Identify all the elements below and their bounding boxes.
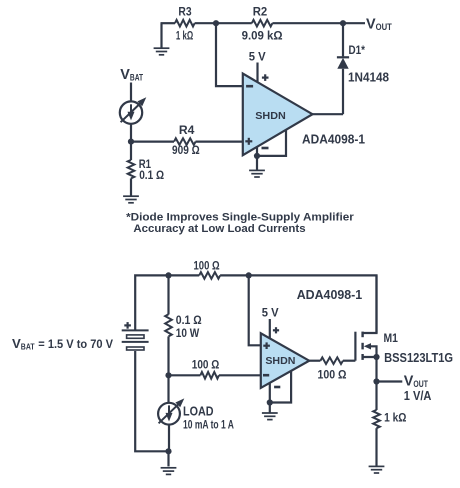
- resistor R5 100 ohm (top): [194, 258, 221, 278]
- svg-text:1 V/A: 1 V/A: [404, 389, 432, 403]
- note line 2: [133, 223, 305, 235]
- node H (U2 ground node): [267, 399, 273, 405]
- supply 5V (U2): [262, 305, 279, 338]
- node D (0.1 ohm top): [165, 272, 171, 278]
- svg-text:VOUT: VOUT: [404, 374, 428, 390]
- svg-text:1 kΩ: 1 kΩ: [384, 411, 406, 425]
- ground G2 (below R1): [123, 196, 139, 203]
- label VBAT (top): [120, 67, 143, 83]
- diode D1: [337, 43, 389, 85]
- op-amp U2 ADA4098-1: [261, 333, 309, 388]
- pin - (inverting input U1): [246, 85, 253, 88]
- resistor R9 1 kohm: [373, 410, 406, 428]
- ground G4 (load): [161, 468, 177, 475]
- wire: [269, 403, 271, 413]
- wire (SHDN tie to ground U2): [270, 371, 291, 403]
- resistor R6 0.1 ohm 10 W: [165, 313, 202, 340]
- wire: [167, 336, 169, 375]
- label VBAT = 1.5 V to 70 V: [12, 336, 114, 352]
- pin - (negative supply U2): [270, 383, 281, 403]
- wire (+input from node E): [249, 275, 261, 345]
- node VOUT (top): [340, 20, 346, 26]
- svg-text:VBAT: VBAT: [12, 336, 35, 352]
- node E (+input branch): [246, 272, 252, 278]
- battery VBAT: [122, 322, 149, 350]
- label VOUT (top): [366, 17, 392, 33]
- svg-text:M1: M1: [384, 331, 399, 345]
- ground G3 (U1): [249, 170, 265, 177]
- svg-text:SHDN: SHDN: [255, 111, 286, 122]
- transistor M1 BSS123LT1G: [355, 275, 453, 381]
- wire: [272, 22, 365, 24]
- op-amp U1 ADA4098-1: [243, 74, 313, 156]
- svg-text:100 Ω: 100 Ω: [318, 368, 347, 382]
- node A (R3/R2 junction): [213, 20, 219, 26]
- node B (R4/R1 junction): [128, 139, 134, 145]
- svg-text:R3: R3: [178, 5, 192, 19]
- svg-text:SHDN: SHDN: [265, 356, 295, 367]
- svg-text:5 V: 5 V: [249, 49, 267, 63]
- wire: [377, 380, 403, 382]
- supply 5V (U1): [249, 49, 269, 82]
- wire (battery negative rail): [135, 351, 168, 451]
- wire: [130, 83, 132, 102]
- resistor R4: [172, 123, 200, 157]
- svg-text:9.09 kΩ: 9.09 kΩ: [242, 29, 283, 43]
- wire: [167, 451, 169, 466]
- ground G5 (U2): [262, 413, 278, 420]
- wire: [167, 375, 169, 403]
- svg-text:D1*: D1*: [349, 43, 366, 57]
- pin - (negative supply U1): [257, 147, 269, 156]
- label ADA4098-1 (top): [302, 132, 365, 146]
- wire: [161, 22, 176, 24]
- wire (U2 output): [309, 360, 320, 362]
- svg-text:10 W: 10 W: [176, 326, 200, 340]
- pin + (non-inverting input U2): [263, 342, 270, 349]
- resistor R7 100 ohm (to -input): [192, 357, 220, 378]
- note line 1: [126, 212, 354, 224]
- node C (U1 ground node): [254, 153, 260, 159]
- wire: [342, 23, 344, 56]
- wire: [169, 374, 201, 376]
- wire: [375, 428, 377, 466]
- node G (bottom rail): [165, 448, 171, 454]
- svg-text:= 1.5 V to 70 V: = 1.5 V to 70 V: [38, 337, 113, 351]
- svg-text:ADA4098-1: ADA4098-1: [297, 288, 363, 302]
- wire (top rail): [135, 275, 199, 330]
- wire: [195, 22, 252, 24]
- wire: [196, 141, 243, 143]
- svg-text:1N4148: 1N4148: [348, 70, 389, 84]
- wire: [343, 360, 356, 362]
- wire: [167, 275, 169, 314]
- svg-text:5 V: 5 V: [262, 305, 279, 319]
- wire: [131, 141, 174, 143]
- wire: [220, 275, 376, 333]
- wire: [256, 156, 258, 170]
- svg-text:R2: R2: [253, 5, 268, 19]
- node J (VOUT bottom): [373, 378, 379, 384]
- node F (0.1 ohm bottom): [165, 372, 171, 378]
- node I (M1 source/body): [373, 354, 379, 360]
- svg-text:100 Ω: 100 Ω: [194, 258, 220, 272]
- svg-text:VBAT: VBAT: [120, 67, 143, 83]
- wire: [130, 124, 132, 160]
- ground G6 (1 kohm): [369, 466, 385, 473]
- resistor R2: [242, 5, 283, 43]
- svg-text:10 mA to 1 A: 10 mA to 1 A: [183, 418, 234, 432]
- label VOUT (bottom): [404, 374, 432, 404]
- wire: [168, 425, 170, 452]
- svg-text:100 Ω: 100 Ω: [192, 357, 220, 371]
- svg-text:R4: R4: [179, 123, 195, 137]
- wire: [219, 374, 261, 376]
- svg-text:909 Ω: 909 Ω: [172, 143, 200, 157]
- pin + (non-inverting input U1): [245, 138, 252, 145]
- wire: [342, 69, 344, 114]
- label ADA4098-1 (bottom): [297, 288, 363, 302]
- svg-text:BSS123LT1G: BSS123LT1G: [384, 351, 453, 365]
- svg-text:1 kΩ: 1 kΩ: [176, 29, 193, 43]
- pin - (inverting input U2): [263, 374, 269, 377]
- svg-text:*Diode Improves Single-Supply: *Diode Improves Single-Supply Amplifier: [126, 212, 354, 224]
- resistor R3: [175, 5, 195, 43]
- load source (variable): [158, 398, 234, 431]
- resistor R8 100 ohm (gate): [318, 357, 347, 381]
- svg-text:ADA4098-1: ADA4098-1: [302, 132, 365, 146]
- ground G1: [154, 23, 170, 55]
- svg-text:Accuracy at Low Load Currents: Accuracy at Low Load Currents: [133, 223, 305, 235]
- wire (U1 output): [313, 113, 344, 115]
- svg-text:0.1 Ω: 0.1 Ω: [139, 168, 164, 182]
- svg-text:VOUT: VOUT: [366, 17, 392, 33]
- wire: [130, 178, 132, 195]
- svg-text:LOAD: LOAD: [183, 404, 214, 419]
- wire (inverting input from node A): [216, 22, 243, 86]
- wire: [375, 382, 377, 411]
- resistor R1: [128, 157, 164, 182]
- wire (SHDN tie to ground): [257, 130, 286, 156]
- current source I1 (variable): [120, 97, 147, 124]
